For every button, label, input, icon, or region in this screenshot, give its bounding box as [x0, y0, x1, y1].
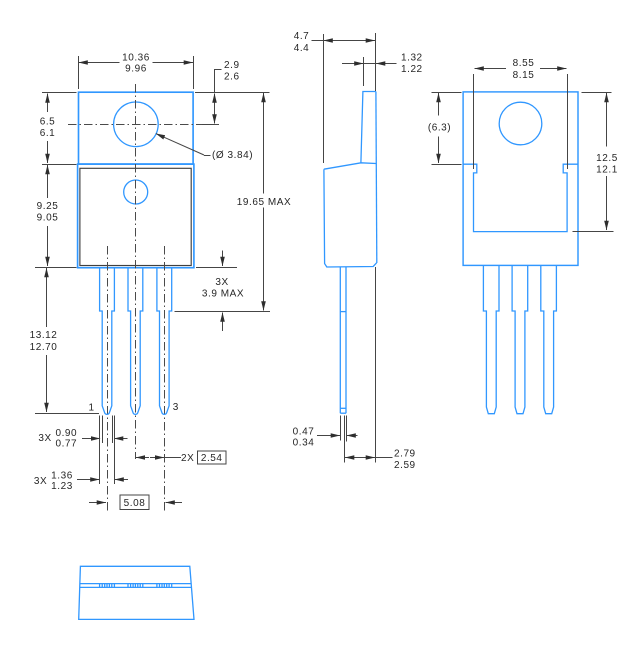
- svg-text:3: 3: [173, 402, 179, 413]
- svg-text:8.15: 8.15: [513, 70, 535, 81]
- dimension 1.32/1.22 tab thickness: [342, 53, 423, 86]
- svg-text:2.9: 2.9: [224, 60, 240, 71]
- bottom view outline: [79, 566, 194, 619]
- rear view mounting hole: [499, 102, 542, 145]
- svg-text:8.55: 8.55: [513, 58, 535, 69]
- svg-text:2.54: 2.54: [201, 453, 223, 464]
- svg-text:13.12: 13.12: [30, 330, 58, 341]
- side view body outline: [324, 163, 377, 267]
- svg-text:4.7: 4.7: [294, 31, 310, 42]
- svg-text:3X: 3X: [34, 476, 47, 487]
- svg-text:0.90: 0.90: [55, 428, 77, 439]
- dimension (6.3) tab height rear: [428, 93, 462, 165]
- bottom view seam lines: [80, 584, 192, 588]
- svg-text:1.23: 1.23: [51, 481, 73, 492]
- dimension 2.9/2.6 hole position: [214, 60, 240, 124]
- svg-text:5.08: 5.08: [124, 498, 146, 509]
- front view small circle: [124, 180, 148, 204]
- dimension 4.7/4.4 body thickness: [294, 31, 376, 163]
- dimension 9.25/9.05 body height: [35, 165, 77, 268]
- svg-text:6.5: 6.5: [40, 117, 56, 128]
- svg-text:3X: 3X: [215, 277, 228, 288]
- side view tab outline: [361, 92, 376, 163]
- leader hole diameter 3.84: [156, 134, 253, 162]
- rear view lead 2: [512, 265, 528, 413]
- side view lead: [340, 267, 346, 414]
- svg-text:2.79: 2.79: [394, 449, 416, 460]
- svg-text:3.9 MAX: 3.9 MAX: [202, 289, 244, 300]
- bottom view lead 1 section ticks: [100, 584, 115, 588]
- svg-text:12.1: 12.1: [596, 165, 618, 176]
- dimension 13.12/12.70 lead length: [30, 268, 99, 414]
- front view tab outline: [79, 92, 194, 164]
- rear view lead 3: [541, 265, 557, 413]
- front view mounting hole: [114, 102, 159, 147]
- bottom view lead 3 section ticks: [157, 584, 172, 588]
- svg-text:4.4: 4.4: [294, 43, 310, 54]
- svg-text:12.5: 12.5: [596, 153, 618, 164]
- rear view lead 1: [483, 265, 499, 413]
- svg-text:9.05: 9.05: [37, 213, 59, 224]
- front view body dark outline: [80, 168, 191, 265]
- svg-text:(6.3): (6.3): [428, 122, 451, 133]
- svg-text:0.34: 0.34: [293, 438, 315, 449]
- svg-text:19.65 MAX: 19.65 MAX: [237, 197, 291, 208]
- svg-text:0.77: 0.77: [55, 439, 77, 450]
- svg-text:9.96: 9.96: [125, 64, 147, 75]
- side view right edge: [375, 92, 378, 264]
- dimension 3X 1.36/1.23 lead base width: [34, 416, 128, 493]
- dimension 19.65 MAX overall: [195, 93, 291, 311]
- rear view tab inner outline: [463, 164, 578, 231]
- front view pin3 centerline: [164, 246, 166, 512]
- front view vertical centerline: [135, 84, 137, 459]
- svg-text:12.70: 12.70: [30, 342, 58, 353]
- svg-text:2.59: 2.59: [394, 460, 416, 471]
- dimension 2X 2.54 pitch: [136, 451, 226, 464]
- svg-text:6.1: 6.1: [40, 128, 56, 139]
- svg-text:10.36: 10.36: [122, 53, 150, 64]
- dimension 3X 0.90/0.77 lead tip width: [38, 416, 127, 450]
- dimension 12.5/12.1 rear height: [573, 93, 618, 232]
- svg-text:3X: 3X: [38, 433, 51, 444]
- svg-text:1.32: 1.32: [401, 53, 423, 64]
- dimension 3X 3.9 MAX shoulder: [175, 251, 271, 332]
- svg-text:1: 1: [88, 403, 94, 414]
- front view lead 1: [100, 268, 115, 415]
- bottom view lead 2 section ticks: [128, 584, 143, 588]
- dimension 5.08 outer pitch: [89, 495, 182, 510]
- svg-text:0.47: 0.47: [293, 426, 315, 437]
- dimension 6.5/6.1 tab height: [40, 93, 77, 165]
- front view hole horizontal centerline: [68, 124, 219, 126]
- svg-text:1.36: 1.36: [51, 471, 73, 482]
- rear view body outline: [463, 92, 578, 266]
- dimension 0.47/0.34 lead thickness: [293, 416, 358, 463]
- dimension 10.36/9.96 width: [79, 53, 194, 90]
- front view lead 3: [157, 268, 172, 415]
- front view pin1 centerline: [107, 246, 109, 512]
- svg-text:2X: 2X: [181, 453, 194, 464]
- dimension 2.79/2.59 lead offset: [345, 267, 416, 471]
- svg-text:1.22: 1.22: [401, 64, 423, 75]
- front view body outer blue outline: [78, 164, 194, 268]
- front view lead 2: [128, 268, 143, 415]
- svg-text:9.25: 9.25: [37, 201, 59, 212]
- dimension 8.55/8.15 tab width: [474, 58, 568, 169]
- svg-text:(Ø 3.84): (Ø 3.84): [212, 150, 253, 161]
- svg-text:2.6: 2.6: [224, 72, 240, 83]
